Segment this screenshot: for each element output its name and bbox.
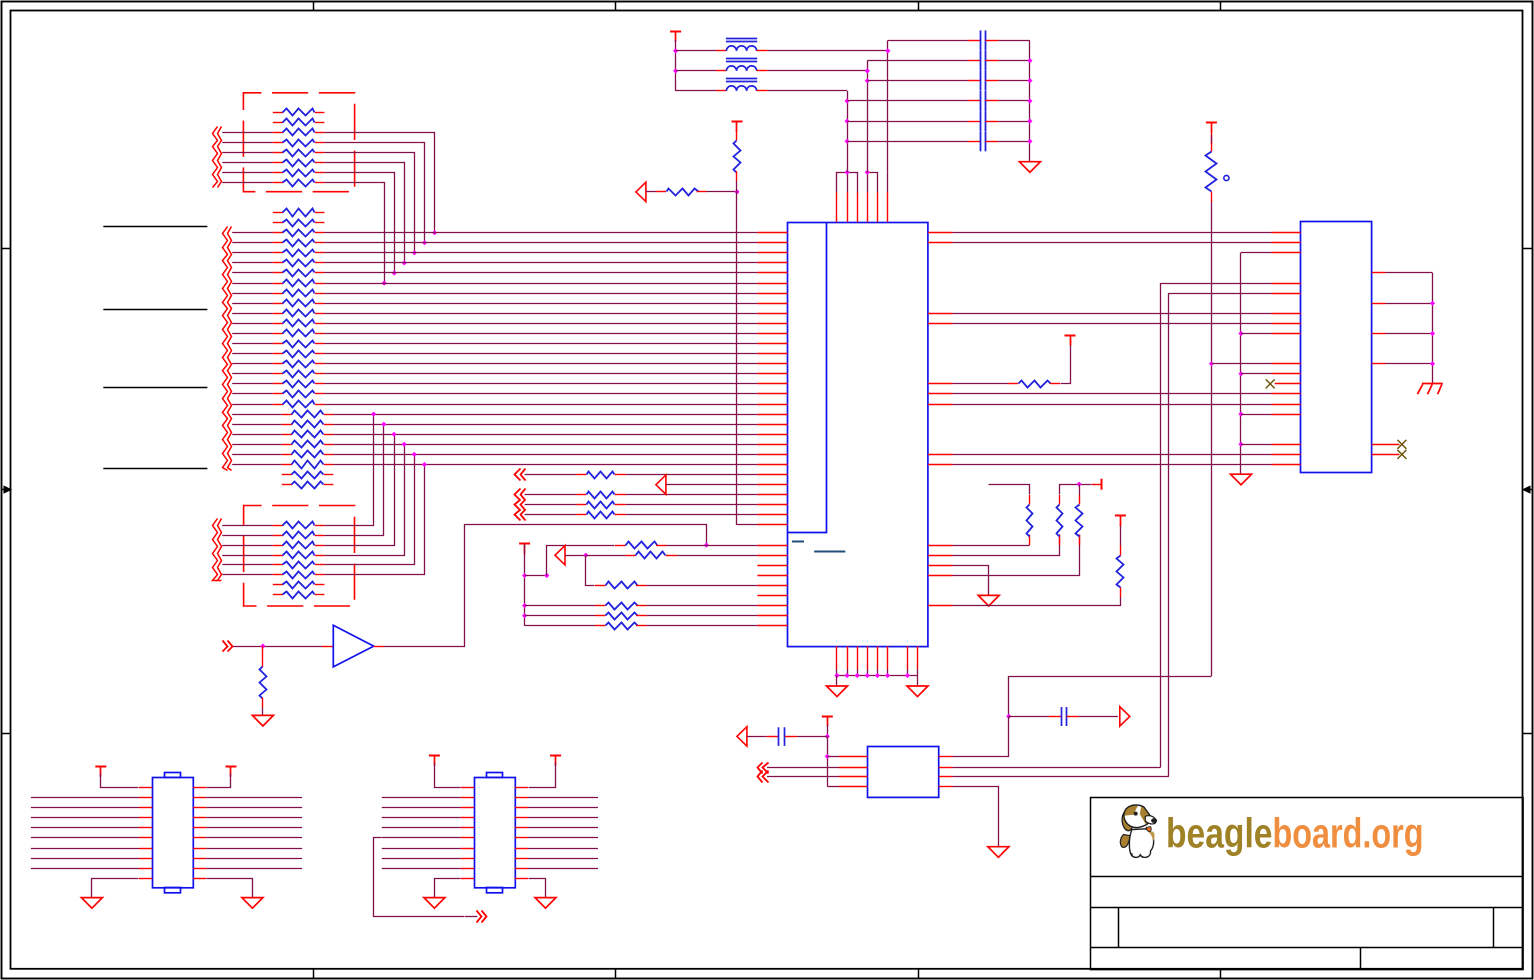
IC U1 bottom pin stubs xyxy=(836,646,838,669)
bus wire row k18 to U1 pin xyxy=(324,393,757,395)
wire U4 data row 4 left xyxy=(31,827,139,829)
riser wire TVOUT3 x847 xyxy=(847,91,849,172)
wire U5 data row 3 right xyxy=(515,817,528,819)
wire U3 pin4 from junction riser xyxy=(827,786,839,788)
resistor RN-bottom row 7 (n.c.) xyxy=(273,584,283,586)
wire gnd bus to J1 pin row k20 xyxy=(1241,414,1272,416)
IC U5 top tab xyxy=(487,773,503,778)
riser wire TVOUT2 x867 xyxy=(867,61,869,173)
wire U4 data row 1 left xyxy=(31,797,139,799)
riser wire J1 k8 to level shifter xyxy=(1169,294,1272,777)
series resistor RN-top row 3 xyxy=(222,132,272,134)
wire RN-bottom row 4 riser to bus row k23 xyxy=(325,445,405,556)
port arrow DVI input left xyxy=(636,182,646,201)
bus wire U1 to J1 row k18 xyxy=(953,393,1272,395)
wire to ferrite bead FB1 xyxy=(676,50,716,52)
IC U4 body xyxy=(153,778,194,888)
IC U1 left pin stubs upper bank xyxy=(757,232,787,234)
no-connect stub J1 right k23 xyxy=(1372,444,1400,446)
series resistor column-A row 13 xyxy=(232,333,273,335)
border zone tick left 1 xyxy=(2,248,12,250)
ground bus vertical x1241 xyxy=(1240,253,1242,475)
wire resistor row k40 to U1 pin xyxy=(646,615,757,617)
bus wire U1 to J1 row k11 xyxy=(953,323,1272,325)
resistor Rc x1079 xyxy=(1079,535,1081,545)
wire resistor row k41 to U1 pin xyxy=(646,625,757,627)
U3 right pin stubs xyxy=(939,756,953,758)
wire U4 data row 2 right xyxy=(193,807,206,809)
wire U4 bottom-right pin to ground xyxy=(193,878,206,880)
wire U5 data row 7 left xyxy=(382,858,461,860)
resistor column-B tail row 1 (n.c.) xyxy=(282,474,292,476)
wire rail to resistor row k40 xyxy=(525,615,595,617)
power symbol pull-up x1211 xyxy=(1206,122,1217,124)
dashed outline resistor-pack RN bottom xyxy=(244,506,355,607)
input chevron buffer xyxy=(228,641,233,652)
series termination zigzag pack column A+B xyxy=(223,227,228,471)
wire U5 data row 4 right xyxy=(515,827,528,829)
bus wire U1 to J1 row k19 xyxy=(953,404,1272,406)
wire bead FB2 to riser xyxy=(767,70,867,72)
series resistor column-B row 6 xyxy=(232,464,282,466)
wire junction down to box pins xyxy=(827,736,829,786)
wire power to U5 top-right pin xyxy=(529,763,556,788)
wire cap to junction xyxy=(797,736,827,738)
IC U1 internal mark 1 xyxy=(792,541,804,543)
bus wire row k16 to U1 pin xyxy=(324,373,757,375)
ground GND U5 right xyxy=(535,898,556,909)
wire to filter cap C1 xyxy=(888,40,968,42)
series resistor RN-bottom row 6 xyxy=(222,574,272,576)
IC U1 internal section divider xyxy=(788,223,827,533)
series resistor row k40 xyxy=(595,615,605,617)
series resistor column-A row 17 xyxy=(232,373,273,375)
series resistor column-A row 11 xyxy=(232,313,273,315)
wire U5 data row 4 left xyxy=(382,827,461,829)
wire U1 pin k36 to resistor Rc xyxy=(953,535,1080,576)
output chevron U5 xyxy=(482,911,487,923)
port arrow cap input left xyxy=(737,727,747,746)
series resistor RN-bottom row 4 xyxy=(222,555,272,557)
power symbol pull-up x737 xyxy=(732,121,743,123)
series resistor column-A row 3 xyxy=(232,232,273,234)
wire U3 right pin3 to riser xyxy=(953,776,1169,778)
power symbol VDD video xyxy=(670,31,681,33)
wire resistor row k39 to U1 pin xyxy=(646,605,757,607)
port arrow DDC out xyxy=(1120,707,1130,726)
border zone tick bottom 3 xyxy=(918,969,920,978)
series resistor column-A row 18 xyxy=(232,383,273,385)
bus wire row k13 to U1 pin xyxy=(324,343,757,345)
pull-down resistor at buffer input xyxy=(262,646,264,667)
wire U4 data row 2 left xyxy=(31,807,139,809)
resistor Rd x1120 xyxy=(1120,587,1122,597)
chassis ground symbol xyxy=(1422,383,1443,385)
wire U3 right pin1 to cap node xyxy=(953,717,1009,757)
wire resistor row k33 to U1 pin xyxy=(667,545,758,547)
wire J1 right pin k12 to shield rail xyxy=(1386,333,1433,335)
series resistor RN-top row 4 xyxy=(222,142,272,144)
title block row line 2 xyxy=(1090,907,1523,909)
wire power to U4 top-right pin xyxy=(207,774,231,788)
series resistor column-B row 3 xyxy=(232,434,282,436)
bus wire row k23 to U1 pin xyxy=(333,444,757,446)
border fold arrow left xyxy=(2,489,7,491)
title block outline xyxy=(1091,798,1524,970)
series resistor column-A row 4 xyxy=(232,242,273,244)
small blue marker circle xyxy=(1224,175,1229,180)
wire resistor Rb to power xyxy=(1060,485,1092,495)
wire U4 data row 7 left xyxy=(31,858,139,860)
IC U3 level shifter body xyxy=(868,747,939,798)
series resistor RN-top row 5 xyxy=(222,152,272,154)
series resistor column-A row 14 xyxy=(232,343,273,345)
series resistor RN-bottom row 5 xyxy=(222,564,272,566)
border zone tick top 1 xyxy=(313,2,315,12)
wire U5 data row 1 left xyxy=(382,797,461,799)
power symbol U5 left xyxy=(429,755,440,757)
svg-text:beagle: beagle xyxy=(1166,810,1273,857)
wire bead FB1 to riser xyxy=(767,50,888,52)
input chevron U3 row3 xyxy=(758,771,763,783)
wire resistor to U1 pin row k29 xyxy=(626,504,758,506)
wire cap C6 to ground rail xyxy=(998,141,1030,143)
series resistor row k41 xyxy=(595,625,605,627)
wire resistor to U1 pin row k28 xyxy=(626,494,758,496)
wire resistor row k34 to U1 pin xyxy=(677,555,758,557)
wire U5 data row 1 right xyxy=(515,797,528,799)
series resistor RN-bottom row 1 xyxy=(222,525,272,527)
bus wire row k24 to U1 pin xyxy=(333,454,757,456)
bus wire row k25 to U1 pin xyxy=(333,464,757,466)
series resistor column-A row 16 xyxy=(232,363,273,365)
wire x737 long vertical to U1 pin k31 xyxy=(736,192,738,525)
wire to filter cap C6 xyxy=(847,141,968,143)
bus wire row k7 to U1 pin xyxy=(324,283,757,285)
pull-up resistor x737 xyxy=(736,130,738,140)
riser wire TVOUT1 x888 xyxy=(887,40,889,172)
series resistor row k34 xyxy=(626,555,636,557)
IC J1 (DVI-D connector) body xyxy=(1301,222,1372,473)
wire RN-top row 3 to bus row 1 xyxy=(325,133,435,233)
power symbol pull-up rail xyxy=(519,543,530,545)
IC U1 (TFP410 DVI transmitter) body xyxy=(788,223,928,647)
series resistor column-A row 9 xyxy=(232,293,273,295)
wire U5 data row 3 left xyxy=(382,817,461,819)
series resistor RN-bottom row 2 xyxy=(222,535,272,537)
wire cap node to capacitor xyxy=(1009,716,1049,718)
wire U3 right pin4 to ground xyxy=(953,787,999,847)
wire U4 data row 3 left xyxy=(31,817,139,819)
logo beagle dog mascot xyxy=(1120,805,1157,858)
resistor RN-top row 1 (n.c.) xyxy=(273,112,283,114)
no-connect stub J1 right k24 xyxy=(1372,454,1400,456)
pull-up rail vertical wire xyxy=(524,552,526,556)
power symbol U4 left xyxy=(95,766,106,768)
IC J1 left pin stubs xyxy=(1272,232,1301,234)
bus wire row k2 to U1 pin xyxy=(324,232,757,234)
wire gnd bus to J1 pin row k12 xyxy=(1241,333,1272,335)
capacitor C6 xyxy=(980,131,982,151)
bus wire row k5 to U1 pin xyxy=(324,262,757,264)
wire power to U5 top-left pin xyxy=(435,763,461,788)
border fold arrow right xyxy=(1528,489,1533,491)
bus wire row k8 to U1 pin xyxy=(324,293,757,295)
input chevron row k26 xyxy=(515,469,521,481)
border zone tick bottom 1 xyxy=(313,969,315,978)
ground GND U4 right xyxy=(242,898,263,909)
resistor column-B tail row 2 (n.c.) xyxy=(282,484,292,486)
wire chevron to buffer input xyxy=(233,646,322,648)
title block row line 1 xyxy=(1090,876,1523,878)
wire U4 data row 5 right xyxy=(193,837,206,839)
power symbol U4 right xyxy=(226,766,237,768)
border zone tick left 2 xyxy=(2,733,12,735)
wire resistor k17 to power riser xyxy=(1061,345,1071,384)
wire U5 data row 5 right xyxy=(515,837,528,839)
wire to ferrite bead FB2 xyxy=(676,70,716,72)
wire rail tap to riser row k33 xyxy=(525,575,547,577)
wire RN-bottom row 1 riser to bus row k20 xyxy=(325,415,374,526)
wire resistor to junction x737 xyxy=(707,191,738,193)
IC U4 top tab xyxy=(165,773,181,778)
bus wire U1 to J1 row k24 xyxy=(953,454,1272,456)
wire chevron to resistor row k30 xyxy=(525,514,577,516)
capacitor C right xyxy=(1061,707,1063,726)
series resistor column-A row 8 xyxy=(232,283,273,285)
wire gnd bus to J1 pin row k4 xyxy=(1241,252,1272,254)
input chevron row k30 xyxy=(515,510,521,521)
IC U1 right pin stubs xyxy=(928,232,953,234)
series resistor column-A row 5 xyxy=(232,252,273,254)
wire gnd bus to J1 pin row k23 xyxy=(1241,444,1272,446)
off-sheet bus stub line 3 xyxy=(103,387,207,389)
wire U5 data row 8 right xyxy=(515,868,528,870)
bus wire U1 to J1 row k25 xyxy=(953,464,1272,466)
dashed outline resistor-pack RN top xyxy=(243,93,354,192)
wire U3 right pin2 to riser xyxy=(953,767,1161,769)
wire RN-top row 7 to bus row 5 xyxy=(325,173,395,273)
wire U1 top pins 4-5 common xyxy=(868,173,878,193)
series resistor RN-top row 7 xyxy=(222,172,272,174)
wire port to resistor row k34 xyxy=(565,555,586,557)
border zone tick top 3 xyxy=(918,2,920,12)
wire J1 right pin k9 to shield rail xyxy=(1386,303,1433,305)
riser wire J1 k7 to level shifter xyxy=(1161,284,1272,768)
capacitor C3 xyxy=(980,71,982,91)
wire U4 data row 4 right xyxy=(193,827,206,829)
series resistor row k17 xyxy=(1008,383,1018,385)
series resistor column-A row 10 xyxy=(232,303,273,305)
resistor RN-top row 2 (n.c.) xyxy=(273,122,283,124)
series resistor row k33 xyxy=(615,545,625,547)
wire U4 data row 7 right xyxy=(193,858,206,860)
wire RN-top row 5 to bus row 3 xyxy=(325,153,415,253)
ground GND U5 left xyxy=(424,898,445,909)
power symbol right-facing at x1102 xyxy=(1101,479,1103,490)
port arrow row k27 xyxy=(656,475,666,494)
wire U3 pin1 from junction xyxy=(827,756,839,758)
wire U4 data row 1 right xyxy=(193,797,206,799)
wire U5 data row 5 left xyxy=(382,837,461,839)
ground GND cap bank xyxy=(1019,162,1040,173)
ground GND k35 xyxy=(978,595,999,606)
wire buffer output xyxy=(374,646,384,648)
wire RN-bottom row 3 riser to bus row k22 xyxy=(325,435,395,546)
series resistor column-A row 7 xyxy=(232,272,273,274)
wire U5 data row 8 left xyxy=(382,868,461,870)
wire cap C3 to ground rail xyxy=(998,80,1030,82)
capacitor C1 xyxy=(980,30,982,50)
ferrite bead FB3 xyxy=(726,86,756,91)
wire bead FB3 to riser xyxy=(767,90,847,92)
resistor Ra x1029 xyxy=(1029,535,1031,546)
series resistor column-B row 1 xyxy=(232,414,282,416)
series resistor row k26 xyxy=(577,474,587,476)
no-connect cross J1 row k17 xyxy=(1266,379,1275,388)
series resistor RN-top row 8 xyxy=(222,182,272,184)
bus wire row k12 to U1 pin xyxy=(324,333,757,335)
wire rail to resistor row k41 xyxy=(525,625,595,627)
wire RN-bottom row 5 riser to bus row k24 xyxy=(325,455,415,565)
resistor column-A row 1 (n.c.) xyxy=(273,212,283,214)
wire U1 pin k34 to resistor Rb xyxy=(953,535,1060,556)
wire DDC net x1211 vertical xyxy=(1211,202,1213,676)
wire U1 pin k35 to ground xyxy=(953,566,989,596)
series termination zigzag pack RN-bottom xyxy=(213,519,218,581)
resistor RN-bottom row 8 (n.c.) xyxy=(273,594,283,596)
wire to ground right xyxy=(917,676,919,687)
wire port to cap xyxy=(747,736,767,738)
bus wire row k22 to U1 pin xyxy=(333,434,757,436)
wire U5 data row 6 left xyxy=(382,848,461,850)
wire chevron to resistor row k29 xyxy=(525,504,577,506)
riser to resistor row k33 xyxy=(547,546,615,576)
wire to filter cap C3 xyxy=(867,80,968,82)
series resistor row k29 xyxy=(577,504,587,506)
series resistor column-A row 15 xyxy=(232,353,273,355)
wire chevron to resistor row k26 xyxy=(525,474,577,476)
wire to ferrite bead FB3 xyxy=(676,90,716,92)
wire U4 data row 8 right xyxy=(193,868,206,870)
wire U5 data row 7 right xyxy=(515,858,528,860)
wire J1 right pin k15 to shield rail xyxy=(1386,363,1433,365)
bus wire U1 to J1 row k10 xyxy=(953,313,1272,315)
ground GND U3 xyxy=(988,847,1009,858)
wire U5 row5 to output chevron xyxy=(374,838,465,917)
border zone tick right 1 xyxy=(1523,248,1533,250)
wire to ground left xyxy=(836,676,838,687)
border zone tick right 2 xyxy=(1523,733,1533,735)
IC U1 left pin stubs lower bank xyxy=(757,545,787,547)
ground GND U1 bottom-left xyxy=(827,686,848,697)
resistor column-A row 2 (n.c.) xyxy=(273,222,283,224)
bus wire row k15 to U1 pin xyxy=(324,363,757,365)
series resistor column-A row 12 xyxy=(232,323,273,325)
wire U1 pin k17 to resistor xyxy=(953,383,1008,385)
wire RN-bottom row 2 riser to bus row k21 xyxy=(325,425,384,536)
wire U1 top pins 1-3 common xyxy=(837,173,858,193)
series resistor column-B row 4 xyxy=(232,444,282,446)
wire resistor to U1 pin row k26 xyxy=(626,474,758,476)
ferrite bead FB1 xyxy=(726,46,756,51)
input chevron row k28 xyxy=(515,489,521,501)
series resistor row k30 xyxy=(577,514,587,516)
capacitor C5 xyxy=(980,111,982,131)
wire capacitor to port xyxy=(1079,716,1118,718)
wire U4 data row 8 left xyxy=(31,868,139,870)
wire U4 data row 6 left xyxy=(31,848,139,850)
wire gnd bus to J1 pin row k16 xyxy=(1241,373,1272,375)
U3 left pin stubs xyxy=(839,756,867,758)
off-sheet bus stub line 1 xyxy=(103,226,207,228)
svg-text:board.org: board.org xyxy=(1273,810,1424,857)
off-sheet bus stub line 2 xyxy=(103,309,207,311)
cap bank ground rail vertical xyxy=(1029,40,1031,161)
wire RN-top row 8 to bus row 6 xyxy=(325,183,385,284)
ground GND U1 bottom-right xyxy=(907,686,928,697)
wire resistor to U1 pin row k30 xyxy=(626,514,758,516)
series resistor column-B row 5 xyxy=(232,454,282,456)
capacitor C2 xyxy=(980,51,982,71)
title block divider c xyxy=(1360,947,1362,969)
wire x1211 to bottom cap xyxy=(1009,677,1212,717)
bus wire row k11 to U1 pin xyxy=(324,323,757,325)
border zone tick top 4 xyxy=(1220,2,1222,12)
wire cap C5 to ground rail xyxy=(998,121,1030,123)
bus wire U1 to J1 row k2 xyxy=(953,232,1272,234)
wire chevron to resistor row k28 xyxy=(525,494,577,496)
bus wire row k9 to U1 pin xyxy=(324,303,757,305)
wire U4 bottom-left pin to ground xyxy=(139,878,152,880)
off-sheet bus stub line 4 xyxy=(103,468,207,470)
capacitor C4 xyxy=(980,91,982,111)
wire U4 data row 6 right xyxy=(193,848,206,850)
border zone tick bottom 2 xyxy=(615,969,617,978)
ground GND U4 left xyxy=(81,898,102,909)
title block divider a xyxy=(1118,907,1120,947)
wire video power rail vertical xyxy=(675,40,677,91)
series resistor RN-top row 6 xyxy=(222,162,272,164)
IC U1 top pin stubs xyxy=(836,192,838,222)
bus wire row k21 to U1 pin xyxy=(333,424,757,426)
wire to filter cap C5 xyxy=(847,121,968,123)
wire U1 pin k33 to resistor Ra xyxy=(953,545,1030,547)
series resistor RN-bottom row 3 xyxy=(222,545,272,547)
wire to filter cap C4 xyxy=(847,100,968,102)
bus wire row k4 to U1 pin xyxy=(324,252,757,254)
wire power to U4 top-left pin xyxy=(101,774,139,788)
wire resistor row k37 to U1 pin xyxy=(646,585,757,587)
wire U5 bottom-right pin to ground xyxy=(515,878,528,880)
series resistor column-A row 19 xyxy=(232,393,273,395)
IC U5 bottom tab xyxy=(487,888,503,893)
riser row k34 to row k37 xyxy=(586,556,595,586)
bus wire U1 to J1 row k3 xyxy=(953,242,1272,244)
power symbol pull-up Rd xyxy=(1115,515,1126,517)
IC U1 internal mark 2 xyxy=(814,551,845,553)
input chevron row k29 xyxy=(515,500,521,511)
input chevron U3 row2 xyxy=(758,763,763,774)
capacitor C left xyxy=(778,727,780,746)
wire cap C2 to ground rail xyxy=(998,60,1030,62)
series resistor row k37 xyxy=(595,585,605,587)
wire rail to resistor row k39 xyxy=(525,605,595,607)
wire U5 data row 2 left xyxy=(382,807,461,809)
wire U1 pin k39 to resistor Rd xyxy=(953,597,1121,606)
wire cap C4 to ground rail xyxy=(998,100,1030,102)
wire U5 bottom-left pin to ground xyxy=(461,878,474,880)
